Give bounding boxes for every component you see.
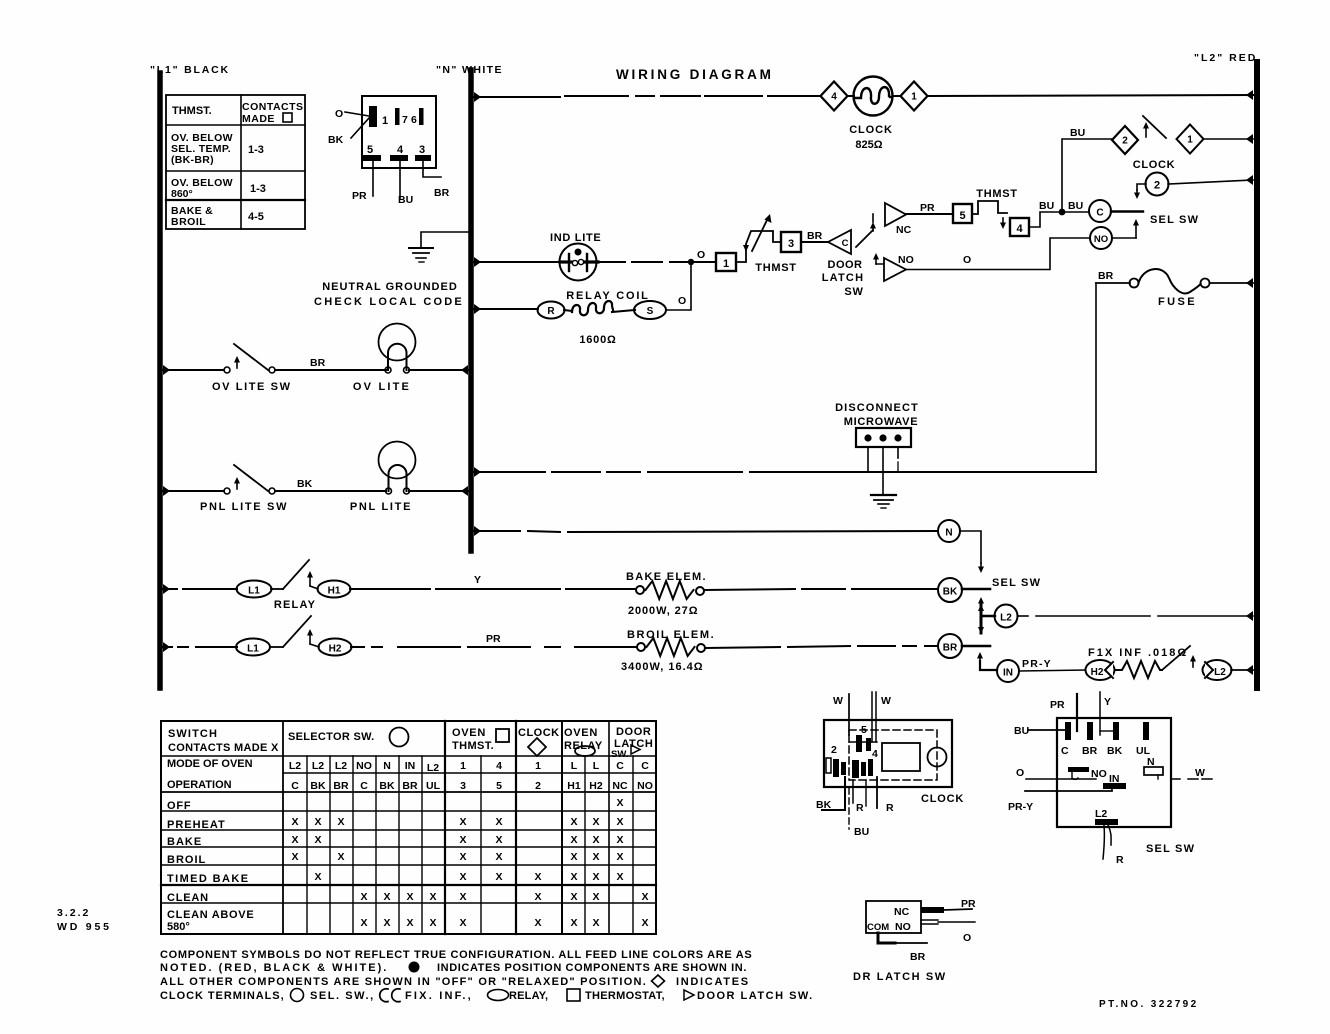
wire N bus to relay coil R xyxy=(474,304,481,314)
svg-text:BK: BK xyxy=(1107,745,1123,757)
wire BU node to sel sw C xyxy=(1062,211,1089,213)
svg-text:CLOCK TERMINALS,: CLOCK TERMINALS, xyxy=(160,990,285,1002)
svg-text:INDICATES: INDICATES xyxy=(676,976,750,988)
svg-text:5: 5 xyxy=(959,210,965,222)
svg-text:FIX. INF.,: FIX. INF., xyxy=(405,990,473,1002)
thermostat clean contact THMST xyxy=(972,201,1007,214)
fix inf terminal L2 xyxy=(1203,660,1232,680)
svg-text:BR: BR xyxy=(333,780,349,792)
svg-text:X: X xyxy=(570,816,577,828)
svg-text:4: 4 xyxy=(831,92,837,103)
svg-text:CONTACTS MADE X: CONTACTS MADE X xyxy=(168,742,279,754)
svg-text:O: O xyxy=(678,295,686,307)
svg-text:BU: BU xyxy=(1070,127,1085,139)
svg-text:PR: PR xyxy=(486,633,501,645)
svg-text:X: X xyxy=(616,797,623,809)
svg-text:PNL LITE: PNL LITE xyxy=(350,501,412,513)
svg-text:SW: SW xyxy=(844,286,863,298)
relay blade (bake) xyxy=(271,588,283,590)
svg-text:4: 4 xyxy=(496,760,502,772)
svg-text:1: 1 xyxy=(460,760,466,772)
sel sw terminal N circle xyxy=(938,520,960,542)
svg-text:R: R xyxy=(886,802,894,814)
svg-text:BU: BU xyxy=(398,194,413,206)
svg-text:1-3: 1-3 xyxy=(248,144,264,156)
svg-text:3400W, 16.4Ω: 3400W, 16.4Ω xyxy=(621,661,704,673)
sel sw terminal IN circle xyxy=(997,660,1019,682)
svg-text:DR LATCH SW: DR LATCH SW xyxy=(853,971,947,983)
svg-text:1: 1 xyxy=(1187,135,1193,146)
svg-text:CLEAN ABOVE: CLEAN ABOVE xyxy=(167,909,254,921)
svg-text:SELECTOR SW.: SELECTOR SW. xyxy=(288,731,375,743)
svg-text:X: X xyxy=(291,816,298,828)
svg-text:X: X xyxy=(534,917,541,929)
ground microwave xyxy=(871,494,896,496)
clock motor terminal diamond 4 xyxy=(821,82,848,111)
svg-text:X: X xyxy=(495,871,502,883)
wire W from sel sw xyxy=(1171,778,1180,780)
diamond symbol xyxy=(652,975,665,987)
relay symbol xyxy=(575,746,595,756)
wire NO contact to sel sw NO terminal, O xyxy=(906,238,1089,270)
svg-text:THMST.: THMST. xyxy=(172,105,212,117)
pin 1 xyxy=(369,106,377,127)
svg-text:X: X xyxy=(337,851,344,863)
svg-text:TIMED BAKE: TIMED BAKE xyxy=(167,873,249,885)
svg-text:OVEN: OVEN xyxy=(452,727,486,739)
svg-text:W: W xyxy=(1195,767,1205,779)
clock terminal detail box CLOCK xyxy=(824,720,952,787)
svg-text:O: O xyxy=(963,254,971,266)
svg-text:X: X xyxy=(616,834,623,846)
svg-text:"L2" RED: "L2" RED xyxy=(1194,52,1257,64)
svg-text:NEUTRAL GROUNDED: NEUTRAL GROUNDED xyxy=(322,281,458,293)
switch PNL LITE SW xyxy=(224,488,230,494)
wire ov lite to N bus xyxy=(409,369,468,371)
sel sw BK fixed contact xyxy=(962,588,990,591)
wire N bus to clock motor (top feed) xyxy=(474,92,481,102)
svg-text:X: X xyxy=(314,834,321,846)
svg-text:L2: L2 xyxy=(1214,667,1226,678)
circle symbol xyxy=(291,989,304,1002)
svg-text:7: 7 xyxy=(402,114,408,126)
svg-text:NC: NC xyxy=(896,224,912,236)
wire H2 to broil element, PR xyxy=(351,646,364,648)
clock display window xyxy=(882,743,920,771)
svg-text:X: X xyxy=(616,816,623,828)
svg-text:PR-Y: PR-Y xyxy=(1008,801,1033,813)
svg-text:1: 1 xyxy=(911,92,917,103)
svg-text:X: X xyxy=(534,891,541,903)
sel sw terminal BR circle xyxy=(938,634,962,658)
svg-text:WD 955: WD 955 xyxy=(57,921,112,933)
svg-text:H2: H2 xyxy=(329,644,342,655)
svg-text:SWITCH: SWITCH xyxy=(168,728,218,740)
svg-text:X: X xyxy=(534,871,541,883)
svg-text:H1: H1 xyxy=(328,586,341,597)
svg-text:(BK-BR): (BK-BR) xyxy=(171,154,214,166)
svg-text:4: 4 xyxy=(872,748,878,760)
relay coil terminal S xyxy=(634,301,666,319)
svg-text:Y: Y xyxy=(474,574,481,586)
wire BU node up to clock contact 2 xyxy=(1062,139,1112,212)
svg-text:C: C xyxy=(842,238,849,249)
wire receptacle pin stub xyxy=(897,447,899,458)
wire H1 to bake element, Y xyxy=(350,588,430,590)
svg-text:NOTED. (RED, BLACK & WHITE).: NOTED. (RED, BLACK & WHITE). xyxy=(160,962,388,974)
svg-text:NO: NO xyxy=(637,780,653,792)
svg-text:BROIL: BROIL xyxy=(167,854,206,866)
net L1 bus (black feed line) xyxy=(157,73,163,688)
wire PR-Y into sel sw IN xyxy=(1025,789,1112,791)
svg-text:COM: COM xyxy=(867,922,889,933)
wire NC to PR xyxy=(921,907,944,913)
svg-text:OV LITE: OV LITE xyxy=(353,381,411,393)
door latch symbol xyxy=(631,745,640,754)
svg-text:2: 2 xyxy=(1154,180,1160,192)
svg-text:"L1" BLACK: "L1" BLACK xyxy=(150,64,230,76)
wire R from clock xyxy=(852,780,854,803)
svg-text:3: 3 xyxy=(460,780,466,792)
svg-text:X: X xyxy=(592,816,599,828)
wire R from sel sw L2 xyxy=(1103,825,1104,859)
svg-text:X: X xyxy=(360,891,367,903)
clock motor terminal diamond 1 xyxy=(893,95,901,97)
svg-text:RELAY: RELAY xyxy=(274,599,316,611)
svg-text:CLOCK: CLOCK xyxy=(1133,159,1176,171)
svg-text:BROIL ELEM.: BROIL ELEM. xyxy=(627,629,715,641)
svg-text:X: X xyxy=(459,871,466,883)
svg-text:4: 4 xyxy=(397,144,404,156)
svg-text:L1: L1 xyxy=(248,586,260,597)
svg-text:L1: L1 xyxy=(247,644,259,655)
ground (neutral grounded) xyxy=(409,247,433,249)
relay blade (broil) xyxy=(270,646,283,648)
oven thermostat terminal 3 (box) xyxy=(781,232,801,252)
wire BK to pnl lite xyxy=(275,490,386,492)
svg-text:5: 5 xyxy=(861,724,867,736)
svg-text:BR: BR xyxy=(434,187,450,199)
sel sw terminal detail box SEL SW xyxy=(1057,718,1171,827)
svg-text:NO: NO xyxy=(1094,234,1108,245)
svg-text:CHECK LOCAL CODE: CHECK LOCAL CODE xyxy=(314,296,464,308)
svg-text:X: X xyxy=(495,816,502,828)
svg-text:L2: L2 xyxy=(289,760,301,772)
relay terminal L1 (bake) xyxy=(237,581,272,598)
wire L1 bus to relay L1 (broil) xyxy=(163,642,170,652)
svg-text:OFF: OFF xyxy=(167,800,191,812)
svg-text:C: C xyxy=(360,780,368,792)
svg-text:NO: NO xyxy=(356,760,372,772)
svg-text:BR: BR xyxy=(310,357,326,369)
thermostat square symbol xyxy=(567,989,580,1001)
svg-text:NC: NC xyxy=(894,906,910,918)
svg-text:N: N xyxy=(945,528,952,539)
svg-text:1: 1 xyxy=(723,258,729,270)
wire circle 2 hook with arrow xyxy=(1137,184,1146,190)
wire N circle to sel sw arm xyxy=(960,531,981,563)
svg-text:L2: L2 xyxy=(312,760,324,772)
svg-text:CLOCK: CLOCK xyxy=(849,124,893,136)
wire PR from pin 5 xyxy=(372,161,374,196)
svg-text:O: O xyxy=(963,932,971,944)
svg-text:THMST: THMST xyxy=(755,262,796,274)
svg-text:C: C xyxy=(641,760,649,772)
svg-text:R: R xyxy=(856,802,864,814)
svg-text:X: X xyxy=(570,917,577,929)
sel sw terminal BK xyxy=(1113,722,1119,740)
svg-text:PR-Y: PR-Y xyxy=(1022,658,1052,670)
svg-text:BK: BK xyxy=(310,780,326,792)
svg-text:X: X xyxy=(314,816,321,828)
door latch sw blade to NC xyxy=(856,230,873,247)
wire BR from pin 3 xyxy=(423,161,441,177)
svg-text:PR: PR xyxy=(961,898,976,910)
svg-text:5: 5 xyxy=(367,144,373,156)
thermostat symbol xyxy=(496,729,509,742)
wire BR to ov lite xyxy=(275,369,386,371)
wire L2 oval to L2 bus xyxy=(1231,669,1253,671)
svg-text:OPERATION: OPERATION xyxy=(167,779,232,791)
fuse FUSE xyxy=(1130,279,1139,288)
svg-text:L2: L2 xyxy=(335,760,347,772)
svg-text:L2: L2 xyxy=(427,762,439,774)
svg-text:C: C xyxy=(1096,208,1103,219)
wire diamond 1 to L2 bus xyxy=(1203,138,1253,140)
wire N bus to disconnect microwave xyxy=(474,467,481,477)
svg-text:RELAY COIL: RELAY COIL xyxy=(566,290,649,302)
svg-text:X: X xyxy=(592,917,599,929)
svg-text:COMPONENT SYMBOLS DO NOT REFLE: COMPONENT SYMBOLS DO NOT REFLECT TRUE CO… xyxy=(160,949,752,961)
thermostat adjust arrow xyxy=(752,218,768,251)
clock motor coil CLOCK 825ohm xyxy=(854,77,893,116)
svg-text:SEL SW: SEL SW xyxy=(1146,843,1195,855)
svg-text:X: X xyxy=(459,851,466,863)
svg-text:X: X xyxy=(641,891,648,903)
sel sw BR fixed contact xyxy=(962,645,990,648)
svg-text:BR: BR xyxy=(1082,745,1098,757)
svg-text:1-3: 1-3 xyxy=(250,183,266,195)
svg-text:BAKE: BAKE xyxy=(167,836,202,848)
wire R from clock (second) xyxy=(876,777,878,808)
svg-text:X: X xyxy=(570,871,577,883)
svg-text:X: X xyxy=(495,834,502,846)
wire N bus to sel sw N xyxy=(474,526,481,536)
svg-text:2: 2 xyxy=(1122,136,1128,147)
svg-text:1600Ω: 1600Ω xyxy=(579,334,616,346)
door latch sw NO contact (triangle) xyxy=(875,256,877,264)
svg-text:BR: BR xyxy=(910,951,926,963)
svg-text:C: C xyxy=(291,780,299,792)
svg-text:4-5: 4-5 xyxy=(248,211,264,223)
svg-text:R: R xyxy=(547,306,555,317)
wire bake element to sel sw BK xyxy=(704,589,795,590)
wire pnl lite to N bus xyxy=(409,490,468,492)
relay terminal L1 (broil) xyxy=(236,639,270,656)
svg-text:X: X xyxy=(592,871,599,883)
svg-text:MODE OF OVEN: MODE OF OVEN xyxy=(167,758,253,770)
svg-text:WIRING DIAGRAM: WIRING DIAGRAM xyxy=(616,67,774,82)
svg-text:DOOR: DOOR xyxy=(616,726,651,738)
svg-text:S: S xyxy=(647,306,654,317)
wire L2 circle to L2 bus xyxy=(1018,615,1028,617)
svg-text:N: N xyxy=(383,760,391,772)
svg-text:PR: PR xyxy=(352,190,367,202)
svg-text:X: X xyxy=(616,851,623,863)
clock switch blade xyxy=(1143,116,1166,138)
svg-text:O: O xyxy=(335,108,343,120)
svg-text:BR: BR xyxy=(402,780,418,792)
wire box3 to door latch sw, BR xyxy=(801,241,828,243)
svg-text:DOOR LATCH SW.: DOOR LATCH SW. xyxy=(697,990,814,1002)
svg-text:L2: L2 xyxy=(1095,808,1107,820)
clock dashed internal outline xyxy=(849,730,937,780)
svg-text:X: X xyxy=(406,917,413,929)
door latch triangle symbol xyxy=(684,990,694,1000)
sel sw NO contact bar xyxy=(1068,767,1089,772)
svg-text:IN: IN xyxy=(1003,668,1013,679)
svg-text:X: X xyxy=(429,891,436,903)
relay coil terminal R xyxy=(538,302,565,319)
svg-text:H1: H1 xyxy=(567,780,581,792)
sel sw C fixed contact xyxy=(1111,210,1143,212)
svg-text:O: O xyxy=(697,249,705,261)
net N bus (white neutral line) xyxy=(468,70,474,551)
door latch sw NC contact (triangle) xyxy=(885,203,906,226)
svg-text:X: X xyxy=(337,816,344,828)
svg-text:FUSE: FUSE xyxy=(1158,296,1197,308)
svg-text:F1X INF .018Ω: F1X INF .018Ω xyxy=(1088,647,1188,659)
svg-text:3: 3 xyxy=(788,238,794,250)
svg-text:SEL SW: SEL SW xyxy=(992,577,1041,589)
svg-text:H2: H2 xyxy=(1091,667,1104,678)
svg-text:X: X xyxy=(459,891,466,903)
svg-text:LATCH: LATCH xyxy=(822,272,864,284)
svg-text:825Ω: 825Ω xyxy=(855,139,882,151)
svg-text:5: 5 xyxy=(496,780,502,792)
wire N bus to IND LITE xyxy=(474,257,481,267)
clock contact circle 2 xyxy=(1146,173,1169,196)
svg-text:C: C xyxy=(1061,745,1069,757)
svg-text:Y: Y xyxy=(1104,696,1111,708)
selector sw symbol xyxy=(390,728,409,747)
svg-text:BK: BK xyxy=(297,478,313,490)
clock terminal 5 (box) xyxy=(953,204,972,223)
svg-text:X: X xyxy=(459,816,466,828)
sel sw terminal L2 circle xyxy=(995,605,1018,628)
clock terminal 4 (box) xyxy=(1010,218,1029,236)
svg-text:6: 6 xyxy=(411,114,417,126)
svg-text:CLEAN: CLEAN xyxy=(167,892,209,904)
wire L1 bus to pnl lite sw xyxy=(163,486,170,496)
svg-text:X: X xyxy=(592,834,599,846)
sel sw arm below BR xyxy=(979,655,981,661)
door latch sw detail box DR LATCH SW xyxy=(866,901,921,933)
svg-text:2: 2 xyxy=(535,780,541,792)
svg-text:L: L xyxy=(593,760,600,772)
svg-text:O: O xyxy=(1016,767,1024,779)
svg-text:X: X xyxy=(495,851,502,863)
svg-text:L2: L2 xyxy=(1000,613,1012,624)
svg-text:3.2.2: 3.2.2 xyxy=(57,907,90,919)
wire BU from clock xyxy=(848,788,850,829)
fix inf terminal H2 xyxy=(1086,660,1115,680)
svg-text:DOOR: DOOR xyxy=(828,259,863,271)
svg-text:X: X xyxy=(592,891,599,903)
svg-text:X: X xyxy=(592,851,599,863)
wire terminal 4 to BU node xyxy=(1029,212,1060,227)
lamp OV LITE xyxy=(379,324,416,361)
svg-text:X: X xyxy=(459,834,466,846)
wire L1 bus to ov lite sw xyxy=(163,365,170,375)
svg-text:NC: NC xyxy=(612,780,628,792)
svg-text:BK: BK xyxy=(943,587,958,598)
sel sw terminal UL xyxy=(1143,722,1149,740)
svg-text:BU: BU xyxy=(1039,200,1054,212)
svg-text:W: W xyxy=(833,695,843,707)
svg-text:X: X xyxy=(570,851,577,863)
wire fuse down to microwave feed xyxy=(1095,283,1097,472)
wire N bus to ground xyxy=(421,232,469,247)
svg-text:BK: BK xyxy=(328,134,344,146)
svg-text:BU: BU xyxy=(854,826,869,838)
svg-text:THERMOSTAT,: THERMOSTAT, xyxy=(585,990,665,1002)
node O junction xyxy=(688,259,694,265)
table THMST contacts made xyxy=(166,95,305,229)
sel sw terminal BK circle xyxy=(938,578,962,602)
svg-text:2000W, 27Ω: 2000W, 27Ω xyxy=(628,605,698,617)
fix inf switch blade xyxy=(1162,646,1190,670)
node BU junction xyxy=(1059,209,1066,216)
oven thermostat terminal 1 (box) xyxy=(716,253,736,271)
sel sw terminal BR xyxy=(1087,722,1093,740)
filled circle symbol xyxy=(409,962,420,973)
svg-text:THMST: THMST xyxy=(976,188,1017,200)
svg-text:CLOCK: CLOCK xyxy=(518,727,560,739)
svg-text:X: X xyxy=(291,851,298,863)
door latch sw common contact C (triangle) xyxy=(828,230,851,254)
svg-text:R: R xyxy=(1116,854,1124,866)
svg-text:DISCONNECT: DISCONNECT xyxy=(835,402,919,414)
wire receptacle pin to ground xyxy=(882,447,884,494)
svg-text:3: 3 xyxy=(419,144,425,156)
svg-text:X: X xyxy=(291,834,298,846)
svg-text:X: X xyxy=(570,834,577,846)
svg-text:NO: NO xyxy=(898,254,914,266)
svg-text:RELAY,: RELAY, xyxy=(509,990,548,1002)
svg-text:BR: BR xyxy=(1098,270,1114,282)
svg-text:NO: NO xyxy=(895,921,911,933)
svg-text:CONTACTS: CONTACTS xyxy=(242,101,304,113)
svg-text:THMST.: THMST. xyxy=(452,740,494,752)
svg-text:MADE: MADE xyxy=(242,113,275,125)
svg-text:MICROWAVE: MICROWAVE xyxy=(844,416,919,428)
svg-text:UL: UL xyxy=(426,780,441,792)
svg-text:L: L xyxy=(571,760,578,772)
clock terminal diamond 2 xyxy=(1112,126,1138,154)
svg-text:X: X xyxy=(406,891,413,903)
wire S to node O xyxy=(666,265,691,310)
svg-text:PT.NO. 322792: PT.NO. 322792 xyxy=(1099,999,1199,1010)
thermostat connector box xyxy=(362,96,436,168)
wire NO circle with arrow xyxy=(1112,237,1136,239)
svg-text:ALL OTHER COMPONENTS ARE SHOWN: ALL OTHER COMPONENTS ARE SHOWN IN "OFF" … xyxy=(160,976,647,988)
svg-text:BR: BR xyxy=(943,643,958,654)
svg-text:BU: BU xyxy=(1014,725,1029,737)
svg-text:BR: BR xyxy=(807,230,823,242)
svg-text:X: X xyxy=(459,917,466,929)
svg-text:580°: 580° xyxy=(167,921,190,933)
